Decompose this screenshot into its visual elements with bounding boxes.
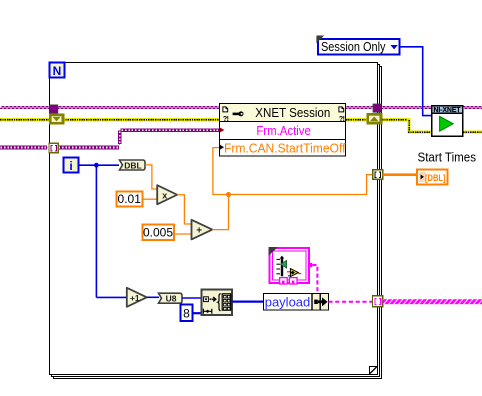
for-loop frame 2 (middle) (52, 65, 380, 377)
svg-text:i: i (69, 159, 72, 173)
for-loop frame 1 (front) (50, 63, 378, 375)
svg-text:Session Only: Session Only (321, 40, 386, 54)
wire: 8 to initialize array (193, 312, 202, 314)
wire: session array chain from tunnel to property node (58, 129, 219, 149)
wire: XNET session wavy inside loop (57, 107, 374, 109)
wire: error cluster right of loop stepping down to NI-XNET (382, 118, 482, 133)
for-loop dog-ear resize corner (369, 366, 378, 375)
wire: property node StartTimeOff to junction and to indexing tunnel (213, 148, 373, 195)
wire: DBL to multiply (145, 165, 157, 189)
junction dot on i wire (94, 163, 99, 168)
junction dot orange (226, 192, 231, 197)
wire: XNET session wavy right of loop to image edge (381, 107, 482, 109)
svg-text:Start Times: Start Times (418, 151, 477, 165)
bundle by name payload (264, 294, 329, 311)
wire: multiply out to add (177, 195, 191, 224)
multiply function (157, 185, 177, 204)
svg-text:payload: payload (265, 294, 311, 309)
wire: cluster constant to payload bundler (pink dashed) (312, 265, 317, 295)
svg-text:NI-XNET: NI-XNET (434, 107, 462, 114)
svg-text:+1: +1 (130, 293, 140, 303)
svg-text:0.005: 0.005 (143, 226, 173, 240)
numeric constant 8 (181, 305, 193, 322)
wire: cluster array striped magenta to right edge (383, 299, 482, 304)
increment +1 function (127, 288, 147, 307)
tunnel: session in (left purple) (50, 105, 58, 113)
wire: add out up to junction (212, 195, 228, 230)
svg-text:DBL: DBL (124, 161, 141, 171)
wire: XNET session (wavy purple) left of loop (0, 107, 50, 109)
wire: session array (chain) left of loop (0, 146, 48, 149)
svg-text:N: N (53, 64, 62, 78)
svg-text:x: x (162, 190, 167, 200)
tunnel: session array indexing (left) (49, 143, 58, 152)
wire: error cluster left of loop (0, 118, 50, 121)
shift register right (error, up arrow) (367, 113, 383, 125)
shift register left (error, down arrow) (49, 114, 65, 125)
wire: 0.01 to multiply (143, 198, 157, 200)
wire: 0.005 to add (174, 233, 192, 235)
numeric constant 0.005 (143, 225, 175, 241)
property node corner icon page+?! (top-right) (339, 107, 345, 123)
wire: DBL array to Start Times indicator (383, 173, 417, 176)
svg-text:?!: ?! (339, 116, 345, 123)
svg-text:Frm.CAN.StartTimeOff: Frm.CAN.StartTimeOff (224, 141, 346, 156)
coercion bullet DBL (120, 160, 146, 171)
property node XNET Session (220, 104, 346, 157)
tunnel: session out (right purple) (373, 104, 381, 112)
svg-text:[DBL]: [DBL] (425, 173, 446, 183)
svg-text:+: + (196, 225, 202, 236)
svg-text:XNET Session: XNET Session (255, 105, 330, 120)
cluster constant (frame payload prototype) (269, 247, 313, 284)
wire: U8 to initialize array (182, 297, 202, 299)
numeric constant 0.01 (117, 192, 143, 207)
svg-text:8: 8 (183, 307, 190, 321)
tunnel: start-times array indexing (right) (373, 170, 383, 180)
for-loop frame 3 (back) (54, 67, 382, 379)
svg-text:?!: ?! (223, 116, 229, 123)
svg-text:U8: U8 (166, 294, 177, 304)
i iteration terminal (64, 158, 79, 174)
property node input pin Frm.Active (219, 127, 224, 133)
wire: enum to NI-XNET start (400, 47, 431, 116)
wire: i terminal to DBL conversion and down to +1 (79, 165, 127, 297)
property node corner icon page+?! (top-left) (223, 107, 229, 123)
N count terminal (50, 63, 65, 79)
property node key icon (233, 111, 244, 116)
coercion bullet U8 (159, 293, 183, 303)
add function (192, 220, 213, 240)
NI-XNET start session icon (432, 106, 463, 137)
indicator Start Times [DBL] (417, 170, 448, 185)
wire: error cluster inside loop (63, 118, 368, 121)
tunnel: cluster array indexing (right) (373, 296, 383, 307)
wire: initialize array to payload bundler (232, 301, 263, 303)
enum constant Session Only (316, 36, 399, 55)
svg-text:0.01: 0.01 (118, 192, 142, 206)
initialize array function (202, 290, 233, 316)
wire: payload to cluster tunnel (pink dashed) (328, 301, 373, 303)
wire: +1 to U8 (147, 296, 159, 298)
svg-text:Frm.Active: Frm.Active (256, 123, 311, 138)
property node input pin Frm.CAN.StartTimeOff (219, 144, 224, 150)
